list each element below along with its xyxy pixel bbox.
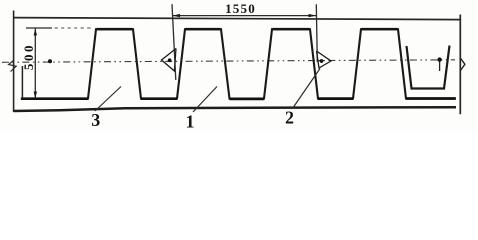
svg-text:2: 2 bbox=[285, 108, 294, 128]
svg-text:3: 3 bbox=[91, 110, 100, 130]
svg-text:1: 1 bbox=[186, 112, 195, 132]
svg-text:1550: 1550 bbox=[225, 1, 256, 16]
svg-text:500: 500 bbox=[21, 43, 36, 70]
